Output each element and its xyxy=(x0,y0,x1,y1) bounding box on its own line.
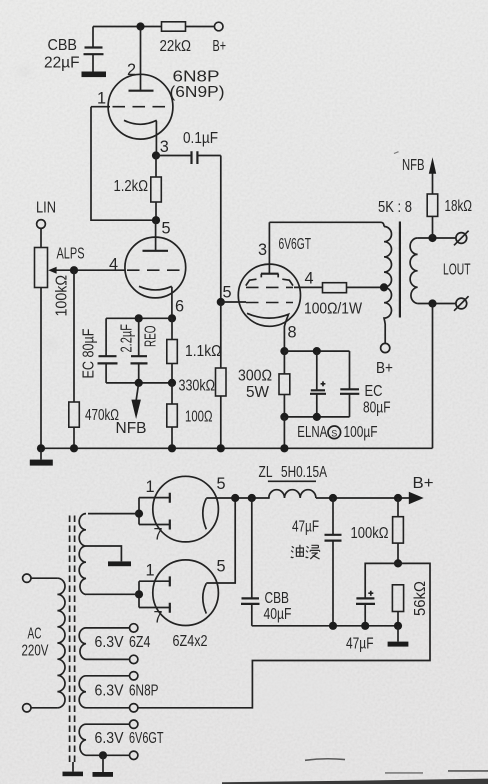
svg-text:330kΩ: 330kΩ xyxy=(179,378,216,395)
svg-text:220V: 220V xyxy=(22,643,49,660)
svg-text:LOUT: LOUT xyxy=(443,262,471,279)
svg-text:100Ω/1W: 100Ω/1W xyxy=(304,301,362,318)
capacitor 47µF electrolytic xyxy=(346,563,398,652)
svg-text:NFB: NFB xyxy=(116,420,147,437)
terminal AC line top xyxy=(23,574,31,582)
svg-text:1: 1 xyxy=(146,478,155,496)
svg-text:7: 7 xyxy=(154,526,163,544)
svg-text:8: 8 xyxy=(288,324,297,342)
node: V3 plates to HV winding xyxy=(135,509,143,517)
wire: main ground rail (top section) xyxy=(41,447,433,449)
svg-text:AC: AC xyxy=(28,626,42,643)
svg-text:NFB: NFB xyxy=(402,157,425,174)
transformer T2 HV winding xyxy=(79,514,139,595)
node: V4 plates to HV winding xyxy=(135,590,143,598)
svg-text:CBB: CBB xyxy=(265,590,290,607)
wire: cathode to bypass network xyxy=(106,317,172,319)
svg-text:22kΩ: 22kΩ xyxy=(160,38,192,55)
ground (main rail) xyxy=(30,448,53,465)
wire: cathode network top xyxy=(284,350,349,352)
node: plate of V1a to B+ rail xyxy=(136,22,144,30)
svg-text:5W: 5W xyxy=(246,384,269,401)
wire: V1a grid to V1b plate xyxy=(91,107,156,221)
ground (below CBB) xyxy=(82,72,107,78)
wire: coupling cap to 6V6 grid xyxy=(220,156,222,303)
HV winding centre tap xyxy=(86,546,121,561)
node: oil cap bottom xyxy=(329,622,337,630)
node: 47µF bottom xyxy=(361,622,369,630)
node: rail at 330k xyxy=(217,444,225,452)
resistor 22kΩ (plate load) xyxy=(160,22,192,55)
capacitor 0.1µF coupling xyxy=(156,130,221,164)
resistor 18kΩ feedback xyxy=(427,173,472,238)
resistor 100Ω cathode bottom xyxy=(167,383,213,448)
triode V1b 6N8P lower half xyxy=(125,220,186,318)
svg-text:2: 2 xyxy=(127,61,136,79)
transformer T2 core (dashed) xyxy=(70,516,75,763)
NFB arrow (feedback output) xyxy=(402,157,436,174)
wire: secondary top to LOUT xyxy=(418,237,456,239)
svg-text:6V6GT: 6V6GT xyxy=(129,730,164,747)
label 6N8P (6N9P) xyxy=(170,69,225,102)
capacitor EC 80µF cathode bypass xyxy=(340,351,391,417)
svg-text:2.2µF: 2.2µF xyxy=(119,324,136,353)
svg-text:470kΩ: 470kΩ xyxy=(85,407,119,424)
node: 300Ω bottom xyxy=(280,413,288,421)
ground (HV centre tap) xyxy=(108,561,131,566)
svg-text:5K : 8: 5K : 8 xyxy=(378,199,412,216)
node: 2.2µF top xyxy=(135,314,143,322)
capacitor 2.2µF REO xyxy=(119,318,160,383)
B+ output arrow xyxy=(409,475,434,504)
capacitor EC 80µF cathode bypass xyxy=(81,318,118,383)
node: V1a cathode / SRPP output xyxy=(152,151,160,159)
svg-text:CBB: CBB xyxy=(48,37,78,54)
svg-text:6Z4x2: 6Z4x2 xyxy=(173,633,208,650)
svg-text:5: 5 xyxy=(162,220,171,238)
terminal AC line bottom xyxy=(23,704,31,712)
svg-text:47µF: 47µF xyxy=(346,636,374,653)
terminal heater 6Z4 b xyxy=(130,655,138,663)
node 8: 6V6 cathode junction xyxy=(280,347,288,355)
transformer T1 core xyxy=(399,222,401,318)
wire: cathode network to ground rail xyxy=(283,417,285,448)
terminal LOUT top xyxy=(454,231,469,246)
svg-text:40µF: 40µF xyxy=(264,606,292,623)
wire: bypass network bottom xyxy=(106,382,172,384)
svg-text:47µF: 47µF xyxy=(292,519,319,536)
triode V1a 6N8P upper half xyxy=(91,27,173,156)
wire: heater bias route to 6N8P heater xyxy=(138,563,430,707)
transformer T2 primary 220V xyxy=(31,578,65,708)
label ELNA (S) 100µF xyxy=(297,424,377,441)
potentiometer ALPS 100kΩ xyxy=(35,246,126,449)
svg-text:EC 80µF: EC 80µF xyxy=(81,328,98,378)
capacitor CBB 22µF xyxy=(44,27,104,72)
svg-text:6: 6 xyxy=(175,298,184,316)
wire: grid lead into 6V6 xyxy=(221,301,246,303)
svg-text:6V6GT: 6V6GT xyxy=(279,236,312,253)
transformer T2 heater winding 6.3V (6N8P) xyxy=(79,676,129,708)
node: ELNA cap top xyxy=(313,347,321,355)
svg-text:ZL: ZL xyxy=(259,464,273,481)
terminal heater 6N8P a xyxy=(130,672,138,680)
svg-text:7: 7 xyxy=(154,609,163,627)
capacitor CBB 40µF xyxy=(241,498,292,626)
wire: B+ rail (choke to output arrow) xyxy=(316,497,410,499)
svg-text:1.2kΩ: 1.2kΩ xyxy=(114,178,149,195)
terminal heater 6Z4 a xyxy=(130,624,138,632)
svg-text:0.1µF: 0.1µF xyxy=(183,130,218,147)
ground (6V6 heater) xyxy=(93,755,114,777)
ground (filter bus) xyxy=(388,626,409,647)
terminal B+ (top) xyxy=(213,22,227,55)
wire: 22k to B+ terminal xyxy=(186,26,215,28)
svg-text:5: 5 xyxy=(217,558,226,576)
node: 47µF oil cap tap xyxy=(329,494,337,502)
node: rail at pot xyxy=(37,444,45,452)
svg-text:100kΩ: 100kΩ xyxy=(351,525,389,542)
svg-text:REO: REO xyxy=(143,326,160,348)
svg-text:5: 5 xyxy=(223,284,232,302)
svg-text:18kΩ: 18kΩ xyxy=(445,198,473,215)
capacitor ELNA 100µF cathode bypass xyxy=(310,351,326,417)
svg-text:LIN: LIN xyxy=(36,200,56,217)
svg-text:3: 3 xyxy=(160,138,169,156)
wire: secondary return to ground rail xyxy=(432,304,434,449)
resistor 1.1kΩ cathode xyxy=(167,318,222,383)
svg-text:56kΩ: 56kΩ xyxy=(412,581,429,616)
terminal heater 6V6GT a xyxy=(130,720,138,728)
label 油浸 (oil-immersed) xyxy=(291,545,320,559)
resistor 100Ω/1W screen stopper xyxy=(304,283,384,318)
svg-text:6.3V: 6.3V xyxy=(95,730,124,747)
node: 1.1k/100Ω junction xyxy=(168,379,176,387)
svg-text:6N8P: 6N8P xyxy=(173,69,220,86)
svg-text:100Ω: 100Ω xyxy=(185,409,213,426)
node 6: V1b cathode junction xyxy=(168,314,176,322)
transformer T2 heater winding 6.3V (6Z4) xyxy=(79,628,129,660)
label AC 220V xyxy=(22,626,49,660)
rectifier V3 6Z4 (upper) xyxy=(139,476,218,542)
svg-text:100kΩ: 100kΩ xyxy=(54,275,71,317)
node: CBB 40µF tap xyxy=(248,494,256,502)
wire: secondary bottom to LOUT xyxy=(418,303,456,305)
svg-text:80µF: 80µF xyxy=(363,400,391,417)
node: 6V6 grid xyxy=(217,298,225,306)
svg-text:ELNA: ELNA xyxy=(297,424,327,441)
transformer T2 heater winding 6.3V (6V6GT) xyxy=(79,724,129,755)
node 5: SRPP midpoint xyxy=(152,216,160,224)
svg-text:1: 1 xyxy=(146,562,155,580)
terminal LOUT bottom xyxy=(454,296,469,311)
node: rail at 100Ω xyxy=(168,444,176,452)
svg-text:B+: B+ xyxy=(376,360,393,377)
resistor 300Ω 5W cathode xyxy=(238,351,290,417)
wire: 6V6 plate to transformer xyxy=(269,222,384,226)
svg-text:B+: B+ xyxy=(413,475,434,492)
svg-text:4: 4 xyxy=(305,270,314,288)
label 6.3V 6N8P xyxy=(95,683,159,700)
svg-text:1.1kΩ: 1.1kΩ xyxy=(185,343,222,360)
resistor 1.2kΩ (SRPP) xyxy=(114,156,162,221)
svg-text:S: S xyxy=(331,428,337,438)
node: rail at 470k xyxy=(70,444,78,452)
svg-text:6Z4: 6Z4 xyxy=(129,634,151,651)
node: rail at cathode network xyxy=(280,444,288,452)
node: secondary bottom xyxy=(428,299,436,307)
svg-text:22µF: 22µF xyxy=(44,55,80,72)
beam tetrode V2 6V6GT xyxy=(238,222,322,351)
node: NFB injection xyxy=(135,379,143,387)
node: V3/V4 cathodes join xyxy=(231,494,239,502)
transformer T1 secondary (8Ω) xyxy=(410,238,417,303)
terminal heater 6V6GT b xyxy=(130,751,138,759)
svg-text:6.3V: 6.3V xyxy=(95,634,124,651)
resistor 100kΩ bleeder xyxy=(351,498,404,563)
svg-text:5H0.15A: 5H0.15A xyxy=(281,464,327,481)
wire: V4 cathode up to B+ rail xyxy=(206,498,235,583)
resistor 330kΩ grid leak of 6V6 xyxy=(216,302,227,448)
capacitor 47µF oil-filled xyxy=(292,498,342,626)
svg-text:(6N9P): (6N9P) xyxy=(170,84,225,101)
svg-text:6.3V: 6.3V xyxy=(95,683,124,700)
svg-text:ALPS: ALPS xyxy=(57,246,85,263)
svg-text:1: 1 xyxy=(97,90,106,108)
label 6.3V 6Z4 xyxy=(95,634,151,651)
inductor ZL choke 5H 0.15A xyxy=(259,464,328,498)
wire: B+ rail (cathodes to choke) xyxy=(206,497,269,499)
terminal LIN input xyxy=(36,200,56,248)
resistor 470kΩ grid leak xyxy=(69,270,119,448)
svg-text:100µF: 100µF xyxy=(344,424,378,441)
svg-text:6N8P: 6N8P xyxy=(129,683,159,700)
node: screen tap on primary xyxy=(380,283,388,291)
rectifier V4 6Z4 (lower) xyxy=(139,560,218,626)
terminal heater 6N8P b xyxy=(130,704,138,712)
svg-text:3: 3 xyxy=(258,241,267,259)
svg-text:B+: B+ xyxy=(213,38,227,55)
node: 56k bottom xyxy=(394,622,402,630)
wire: B+ rail top left xyxy=(93,26,162,28)
NFB arrow (to feedback network) xyxy=(116,383,147,437)
ground (transformer core) xyxy=(63,762,84,776)
svg-text:5: 5 xyxy=(217,475,226,493)
node: 100kΩ tap xyxy=(394,494,402,502)
node: secondary top / feedback xyxy=(428,234,436,242)
node: 6V6 heater grounded side xyxy=(99,751,107,759)
svg-text:300Ω: 300Ω xyxy=(238,368,272,385)
wire: filter ground bus xyxy=(252,625,398,627)
terminal B+ (plate supply) xyxy=(376,343,393,377)
label 6.3V 6V6GT xyxy=(95,730,164,747)
svg-text:EC: EC xyxy=(365,383,383,400)
scan artifacts (photo edge) xyxy=(222,152,488,784)
node: ELNA bottom xyxy=(313,413,321,421)
node: pot wiper / grid leak xyxy=(70,266,78,274)
node: 100k/56k divider junction xyxy=(394,559,402,567)
resistor 56kΩ divider xyxy=(392,581,429,626)
transformer T1 primary (5K) xyxy=(384,227,392,344)
wire: cathode network bottom xyxy=(284,416,349,418)
